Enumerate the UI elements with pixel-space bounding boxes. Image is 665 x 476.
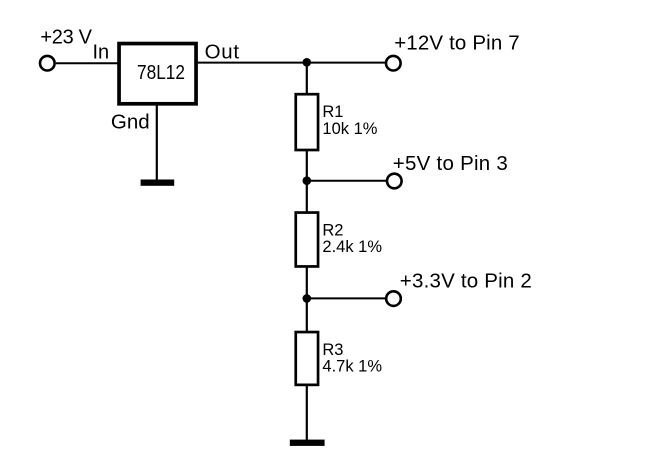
terminal J2 (+12V to Pin 7) bbox=[386, 56, 401, 71]
wire R2 to +3.3V node bbox=[306, 267, 308, 299]
svg-text:+23 V: +23 V bbox=[40, 27, 92, 49]
svg-text:+12V to Pin 7: +12V to Pin 7 bbox=[394, 32, 520, 55]
svg-text:+5V to Pin 3: +5V to Pin 3 bbox=[393, 152, 508, 175]
wire +5V node to R2 bbox=[306, 181, 308, 212]
terminal J3 (+5V to Pin 3) bbox=[387, 174, 402, 189]
svg-text:78L12: 78L12 bbox=[137, 62, 185, 84]
wire J1 to regulator In pin bbox=[56, 62, 118, 64]
wire +5V node to J3 bbox=[307, 180, 387, 182]
svg-text:+3.3V to Pin 2: +3.3V to Pin 2 bbox=[400, 270, 532, 293]
svg-text:2.4k 1%: 2.4k 1% bbox=[322, 238, 382, 256]
wire R3 to ground bbox=[306, 385, 308, 440]
wire +3.3V node to R3 bbox=[306, 298, 308, 331]
junction node +5V bbox=[303, 176, 312, 185]
svg-text:Out: Out bbox=[205, 41, 240, 64]
wire +3.3V node to J4 bbox=[307, 297, 387, 299]
junction node +12V rail bbox=[303, 58, 312, 67]
resistor R2 bbox=[296, 213, 318, 267]
terminal J4 (+3.3V to Pin 2) bbox=[386, 291, 401, 306]
resistor R3 bbox=[296, 332, 318, 385]
wire regulator Gnd pin down bbox=[156, 105, 158, 181]
svg-text:4.7k 1%: 4.7k 1% bbox=[322, 357, 382, 375]
svg-text:10k 1%: 10k 1% bbox=[322, 120, 377, 138]
wire regulator Out to +12V terminal bbox=[198, 62, 387, 64]
regulator U1 78L12 bbox=[119, 44, 196, 104]
svg-text:R3: R3 bbox=[322, 341, 343, 359]
wire R1 to +5V node bbox=[306, 150, 308, 181]
ground symbol (divider bottom) bbox=[290, 440, 325, 446]
svg-text:In: In bbox=[93, 41, 110, 63]
svg-text:R2: R2 bbox=[322, 222, 343, 240]
junction node +3.3V bbox=[303, 294, 312, 303]
ground symbol (regulator) bbox=[141, 180, 175, 186]
svg-text:R1: R1 bbox=[322, 103, 343, 121]
terminal J1 (+23V input) bbox=[40, 56, 55, 71]
resistor R1 bbox=[296, 94, 318, 150]
svg-text:Gnd: Gnd bbox=[111, 110, 150, 133]
wire +12V node to R1 bbox=[306, 62, 308, 93]
